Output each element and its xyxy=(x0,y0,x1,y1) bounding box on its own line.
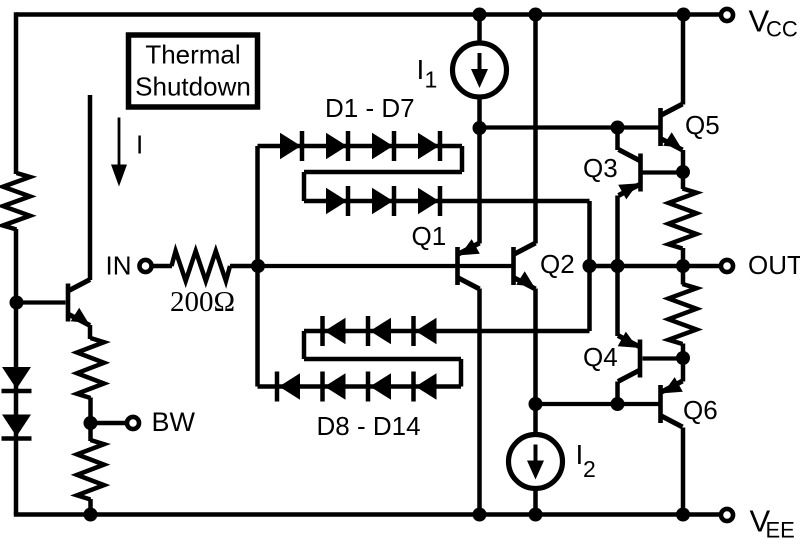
transistor Q1 xyxy=(455,247,460,285)
wire: D1-D7 second row xyxy=(304,199,590,204)
diode D2 xyxy=(326,133,347,160)
diode D1 xyxy=(280,133,301,160)
terminal OUT xyxy=(721,260,733,272)
wire: Q5 emitter to node xyxy=(681,150,686,173)
svg-text:EE: EE xyxy=(766,518,795,543)
wire top resistor to OUT node xyxy=(681,248,686,266)
diode D11 xyxy=(411,372,416,402)
current direction arrow I xyxy=(118,118,121,169)
terminal VCC xyxy=(721,9,733,21)
transistor Q4 xyxy=(638,340,643,378)
wire: I1 branch from VCC through to Q1 emitter xyxy=(477,15,482,244)
resistor 200 ohm xyxy=(172,251,231,281)
wire: thermal transistor emitter to resistor xyxy=(88,325,93,339)
wire lower resistor to VEE rail xyxy=(88,499,93,515)
wire: D8-D14 wrap right xyxy=(459,359,464,387)
wire: drive line I2 node to Q6 base xyxy=(536,402,659,406)
node on VEE rail below thermal resistor xyxy=(84,508,98,522)
wire: drive line I1 node to Q5 base xyxy=(480,125,659,129)
wire: base line input node to Q1 Q2 xyxy=(258,264,512,268)
wire: Q4 base to Q6 emitter node xyxy=(643,356,684,360)
svg-text:BW: BW xyxy=(152,407,196,437)
diode D13 xyxy=(366,316,371,346)
node OUT at resistors xyxy=(676,259,690,273)
node Q1 collector on VEE rail xyxy=(473,508,487,522)
svg-text:OUT: OUT xyxy=(748,250,800,280)
svg-text:1: 1 xyxy=(425,67,438,93)
wire: OUT vertical between Q3 and Q4 xyxy=(615,266,620,336)
resistor on left rail xyxy=(3,173,30,230)
wire: D1-D7 first row xyxy=(258,144,463,149)
resistor in thermal emitter (upper) xyxy=(77,338,104,398)
wire: Q1 collector to VEE rail xyxy=(477,289,482,515)
wire: D8-D14 lower row xyxy=(258,384,462,389)
wire: Q3 base to Q5 emitter node xyxy=(643,170,684,174)
wire to top output resistor xyxy=(681,172,686,189)
resistor output bottom xyxy=(669,284,697,344)
wire to BW node xyxy=(88,398,93,425)
svg-text:Q6: Q6 xyxy=(683,395,718,425)
transistor Q2 xyxy=(511,247,516,285)
wire: D1-D7 wrap middle xyxy=(304,170,462,175)
wire: diode string to output node vertical xyxy=(587,201,592,331)
wire: Q4 collector vertical xyxy=(615,382,620,405)
diode D6 xyxy=(372,188,393,215)
wire: Q6 emitter vertical xyxy=(681,358,686,382)
svg-text:2: 2 xyxy=(583,456,596,482)
left rail upper wire segment xyxy=(14,12,19,174)
wire: D1-D7 wrap left down xyxy=(302,172,307,201)
wire resistor to input node xyxy=(230,264,258,269)
svg-text:D1 - D7: D1 - D7 xyxy=(325,93,415,123)
wire BW xyxy=(91,421,127,426)
svg-text:Q4: Q4 xyxy=(583,342,618,372)
diode D5 xyxy=(326,188,347,215)
transistor Q-thermal xyxy=(66,284,71,322)
wire IN to resistor xyxy=(152,264,173,269)
node Q4 collector junction xyxy=(611,397,625,411)
top rail VCC bus wire xyxy=(16,12,719,17)
node I2 bottom on VEE rail xyxy=(529,508,543,522)
terminal BW xyxy=(127,417,139,429)
wire: base of thermal transistor xyxy=(17,300,66,304)
svg-text:Q5: Q5 xyxy=(685,110,720,140)
node Q3 collector junction xyxy=(611,121,625,135)
diode D7 xyxy=(418,188,439,215)
node I1 top on VCC rail xyxy=(473,8,487,22)
terminal IN xyxy=(139,260,151,272)
node I2 top xyxy=(529,397,543,411)
wire: D1-D7 wrap right down xyxy=(460,146,465,172)
diode on left rail (upper) xyxy=(2,367,31,389)
svg-text:I: I xyxy=(417,54,425,85)
wire BW node to lower resistor xyxy=(88,423,93,441)
node Q5 emitter / Q3 base / R-top xyxy=(676,165,690,179)
current source I1 xyxy=(453,43,507,97)
svg-text:I: I xyxy=(136,130,143,160)
left rail lower wire segment xyxy=(14,229,19,515)
wire OUT node to lower resistor xyxy=(681,266,686,285)
node Q6 emitter / Q4 base / R-bottom xyxy=(676,351,690,365)
transistor Q5 xyxy=(658,108,663,146)
node Q6 collector on VEE rail xyxy=(676,508,690,522)
wire: D8-D14 upper row xyxy=(304,329,590,334)
transistor Q3 xyxy=(638,154,643,192)
wire: Q3 emitter vertical to OUT line xyxy=(615,196,620,267)
diode D10 xyxy=(366,372,371,402)
wire: Q2 emitter through I2 to VEE rail xyxy=(533,289,538,515)
wire: Q3 collector vertical xyxy=(615,128,620,151)
svg-text:D8 - D14: D8 - D14 xyxy=(317,411,421,441)
node: thermal transistor base on left rail xyxy=(10,296,24,310)
svg-text:CC: CC xyxy=(766,17,798,42)
wire: input node vertical to diode strings xyxy=(255,146,260,387)
node diode strings on OUT line xyxy=(583,259,597,273)
diode on left rail (lower) xyxy=(2,415,31,437)
wire: Q6 collector to VEE rail xyxy=(681,428,686,515)
node BW xyxy=(84,416,98,430)
terminal VEE xyxy=(721,509,733,521)
wire: Q2 collector to VCC rail xyxy=(533,15,538,244)
svg-text:Q3: Q3 xyxy=(583,153,618,183)
node Q3-Q4 on OUT line xyxy=(611,259,625,273)
current source I2 xyxy=(509,435,563,489)
wire: D8-D14 wrap left up xyxy=(302,331,307,359)
transistor Q6 xyxy=(658,385,663,423)
bottom rail VEE bus wire xyxy=(14,512,719,517)
wire: Q5 collector to VCC rail xyxy=(681,15,686,105)
diode D4 xyxy=(418,133,439,160)
diode D8 xyxy=(275,372,280,402)
svg-text:IN: IN xyxy=(106,251,132,281)
diode D9 xyxy=(320,372,325,402)
diode D12 xyxy=(320,316,325,346)
svg-text:Shutdown: Shutdown xyxy=(135,72,251,102)
Thermal Shutdown box xyxy=(129,35,258,107)
svg-text:Thermal: Thermal xyxy=(145,40,240,70)
svg-text:Q2: Q2 xyxy=(540,249,575,279)
diode D14 xyxy=(411,316,416,346)
wire lower resistor to Q6 emitter node xyxy=(681,344,686,359)
diode D3 xyxy=(372,133,393,160)
node input xyxy=(251,259,265,273)
svg-text:200Ω: 200Ω xyxy=(170,286,235,318)
node Q5 collector on VCC rail xyxy=(677,8,691,22)
node I1 bottom xyxy=(473,121,487,135)
wire: D8-D14 wrap middle xyxy=(304,357,461,362)
wire: thermal transistor collector xyxy=(88,95,93,280)
svg-text:Q1: Q1 xyxy=(412,221,447,251)
resistor output top xyxy=(669,189,697,249)
resistor in thermal emitter (lower) xyxy=(77,440,104,500)
node Q2 collector on VCC rail xyxy=(529,8,543,22)
wire: OUT line xyxy=(590,264,720,269)
